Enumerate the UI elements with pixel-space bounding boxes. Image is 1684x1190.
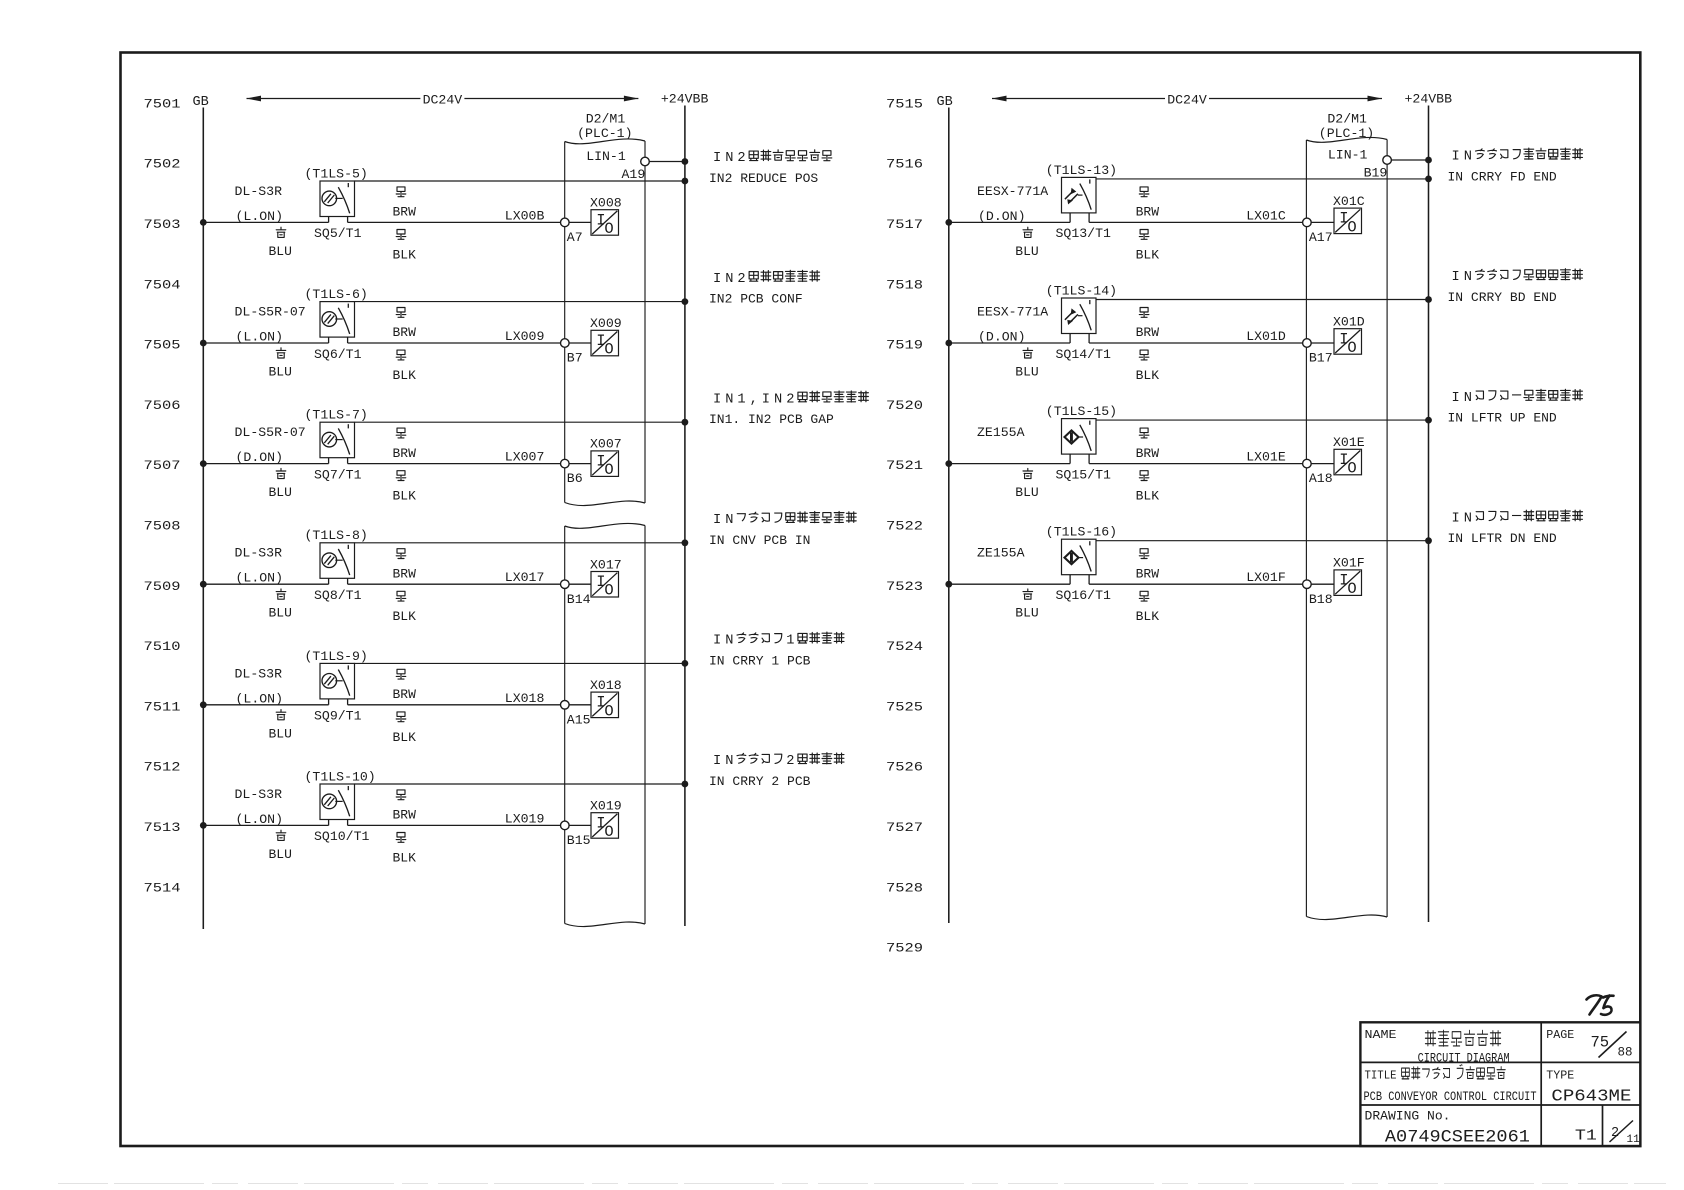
svg-text:7511: 7511 xyxy=(144,699,181,714)
wire: terminal to PLC input X018 xyxy=(569,704,591,706)
svg-text:X007: X007 xyxy=(590,437,622,452)
title block: PAGE cell 75/88 xyxy=(1546,1028,1632,1059)
svg-text:O: O xyxy=(1347,460,1356,478)
svg-text:BLU: BLU xyxy=(1015,365,1038,380)
wire: sensor pin stub BLU xyxy=(328,458,330,464)
wire: sensor pin stub BLK xyxy=(347,699,349,705)
terminal LX01E pin A18 xyxy=(1303,459,1312,468)
svg-text:O: O xyxy=(604,823,613,841)
svg-text:2: 2 xyxy=(786,392,794,407)
svg-text:DL-S3R: DL-S3R xyxy=(235,184,283,199)
svg-text:N: N xyxy=(725,513,733,528)
svg-text:DL-S3R: DL-S3R xyxy=(235,787,283,802)
svg-text:SQ10/T1: SQ10/T1 xyxy=(314,829,369,844)
svg-text:LIN-1: LIN-1 xyxy=(586,149,626,164)
svg-text:(D.ON): (D.ON) xyxy=(978,330,1025,345)
svg-text:BLK: BLK xyxy=(393,609,417,624)
junction on +24VBB bus (SQ16/T1 BRW) xyxy=(1425,537,1432,544)
svg-text:2: 2 xyxy=(786,754,794,769)
wire: sensor SQ14/T1 brown lead to +24VBB bus xyxy=(1096,299,1429,301)
PLC input point X01D xyxy=(1333,315,1365,357)
svg-text:BLU: BLU xyxy=(269,244,292,259)
svg-text:A7: A7 xyxy=(567,230,583,245)
svg-text:B17: B17 xyxy=(1309,351,1333,366)
svg-text:B14: B14 xyxy=(567,592,591,607)
svg-text:7513: 7513 xyxy=(144,820,181,835)
junction on +24VBB bus (SQ15/T1 BRW) xyxy=(1425,417,1432,424)
PLC input point X019 xyxy=(590,799,622,841)
svg-text:DRAWING No.: DRAWING No. xyxy=(1365,1110,1451,1124)
svg-text:N: N xyxy=(1464,150,1472,165)
DC24V supply span arrow xyxy=(992,93,1382,108)
PLC input point X01E xyxy=(1333,435,1365,477)
svg-text:(D.ON): (D.ON) xyxy=(236,450,283,465)
svg-text:I: I xyxy=(713,513,721,528)
junction on GB bus (row 7511) xyxy=(200,701,207,708)
svg-text:(T1LS-14): (T1LS-14) xyxy=(1046,283,1117,298)
net label: IN CNV PCB IN xyxy=(709,512,856,548)
label BRW (brown lead) xyxy=(393,428,417,461)
svg-text:PAGE: PAGE xyxy=(1546,1028,1574,1042)
svg-text:I: I xyxy=(1451,391,1459,406)
svg-text:LX019: LX019 xyxy=(505,811,545,826)
svg-text:BLK: BLK xyxy=(393,489,417,504)
label BLU (blue lead) xyxy=(269,710,292,742)
net label: IN2 REDUCE POS xyxy=(709,150,832,186)
svg-text:7510: 7510 xyxy=(144,639,181,654)
svg-text:A18: A18 xyxy=(1309,471,1333,486)
svg-text:7505: 7505 xyxy=(144,338,181,353)
wire: sensor SQ7/T1 black lead to PLC terminal B6 xyxy=(348,463,561,465)
svg-text:O: O xyxy=(604,461,613,479)
svg-text:BRW: BRW xyxy=(393,205,417,220)
svg-text:LX017: LX017 xyxy=(505,570,545,585)
junction on +24VBB bus (LIN-1) xyxy=(682,158,689,165)
wire: sensor SQ6/T1 black lead to PLC terminal B7 xyxy=(348,342,561,344)
wire: terminal to PLC input X008 xyxy=(569,221,591,223)
wire: GB bus to sensor SQ9/T1 blue lead xyxy=(203,704,328,706)
net label: IN LFTR DN END xyxy=(1448,510,1583,546)
svg-text:I: I xyxy=(713,754,721,769)
svg-text:N: N xyxy=(725,392,733,407)
svg-text:(L.ON): (L.ON) xyxy=(236,691,283,706)
svg-text:N: N xyxy=(725,634,733,649)
label BLU (blue lead) xyxy=(269,830,292,862)
photoelectric sensor SQ13/T1 (T1LS-13) type EESX-771A xyxy=(1062,177,1097,213)
net label: IN LFTR UP END xyxy=(1448,389,1583,425)
svg-text:I: I xyxy=(713,392,721,407)
svg-text:7526: 7526 xyxy=(886,760,923,775)
svg-text:X019: X019 xyxy=(590,799,622,814)
svg-text:D2/M1: D2/M1 xyxy=(586,112,626,127)
svg-text:IN CRRY BD END: IN CRRY BD END xyxy=(1448,290,1557,305)
wire: +24VBB bus xyxy=(684,106,686,927)
svg-text:BRW: BRW xyxy=(393,687,417,702)
svg-text:SQ15/T1: SQ15/T1 xyxy=(1056,467,1111,482)
wire: sensor pin stub BLK xyxy=(1088,334,1090,344)
svg-text:LX01D: LX01D xyxy=(1246,329,1286,344)
svg-text:SQ14/T1: SQ14/T1 xyxy=(1056,347,1111,362)
wire: sensor SQ14/T1 black lead to PLC terminal B17 xyxy=(1089,342,1303,344)
net label: IN CRRY 2 PCB xyxy=(709,753,844,789)
wire: GB bus to sensor SQ14/T1 blue lead xyxy=(949,342,1070,344)
svg-text:I: I xyxy=(713,151,721,166)
wire: sensor SQ10/T1 brown lead to +24VBB bus xyxy=(355,783,685,785)
svg-text:I: I xyxy=(762,392,770,407)
wire: sensor pin stub BLU xyxy=(328,217,330,223)
svg-text:BLK: BLK xyxy=(1136,247,1160,262)
terminal LX01D pin B17 xyxy=(1303,339,1312,348)
svg-text:LX01E: LX01E xyxy=(1246,450,1286,465)
svg-text:7504: 7504 xyxy=(144,277,181,292)
svg-text:BLK: BLK xyxy=(393,247,417,262)
PLC input point X009 xyxy=(590,316,622,358)
label BLK (black lead) xyxy=(1136,591,1160,624)
wire: sensor SQ8/T1 black lead to PLC terminal B14 xyxy=(348,583,561,585)
svg-text:O: O xyxy=(604,582,613,600)
photoelectric sensor SQ10/T1 (T1LS-10) type DL-S3R xyxy=(320,784,355,820)
wire: terminal to PLC input X01F xyxy=(1311,583,1334,585)
junction on GB bus (row 7507) xyxy=(200,460,207,467)
junction on +24VBB bus (SQ13/T1 BRW) xyxy=(1425,176,1432,183)
wire: GB bus to sensor SQ5/T1 blue lead xyxy=(203,221,328,223)
PLC input point X008 xyxy=(590,196,622,238)
svg-text:DC24V: DC24V xyxy=(1167,93,1207,108)
junction on +24VBB bus (LIN-1) xyxy=(1425,157,1432,164)
terminal LIN-1 pin B19 xyxy=(1328,148,1429,181)
junction on GB bus (row 7505) xyxy=(200,340,207,347)
handwritten page number 75 xyxy=(1587,995,1614,1015)
wire: sensor SQ7/T1 brown lead to +24VBB bus xyxy=(355,421,685,423)
svg-text:A0749CSEE2061: A0749CSEE2061 xyxy=(1385,1127,1530,1147)
wire: sensor pin stub BLK xyxy=(347,820,349,826)
svg-text:N: N xyxy=(725,754,733,769)
junction on GB bus (row 7521) xyxy=(945,460,952,467)
svg-text:IN CRRY FD END: IN CRRY FD END xyxy=(1448,169,1557,184)
wire: GB bus xyxy=(948,108,950,924)
svg-text:N: N xyxy=(725,151,733,166)
svg-text:X01C: X01C xyxy=(1333,194,1365,209)
DC24V supply span arrow xyxy=(247,93,639,108)
svg-text:TYPE: TYPE xyxy=(1546,1068,1574,1082)
net label: IN CRRY BD END xyxy=(1448,269,1583,305)
junction on +24VBB bus (SQ5/T1 BRW) xyxy=(682,178,689,185)
wire: GB bus to sensor SQ16/T1 blue lead xyxy=(949,583,1070,585)
wire: GB bus to sensor SQ13/T1 blue lead xyxy=(949,221,1070,223)
junction on +24VBB bus (SQ6/T1 BRW) xyxy=(682,298,689,305)
svg-text:BLU: BLU xyxy=(269,726,292,741)
svg-text:(D.ON): (D.ON) xyxy=(978,209,1025,224)
photoelectric sensor SQ9/T1 (T1LS-9) type DL-S3R xyxy=(320,663,355,699)
terminal LX018 pin A15 xyxy=(561,701,570,710)
svg-text:7506: 7506 xyxy=(144,398,181,413)
svg-text:1: 1 xyxy=(786,634,794,649)
svg-text:BLK: BLK xyxy=(1136,489,1160,504)
svg-text:ZE155A: ZE155A xyxy=(977,546,1025,561)
terminal LX009 pin B7 xyxy=(561,339,570,348)
wire: sensor SQ6/T1 brown lead to +24VBB bus xyxy=(355,301,685,303)
svg-text:7512: 7512 xyxy=(144,760,181,775)
svg-text:DL-S3R: DL-S3R xyxy=(235,546,283,561)
wire: sensor pin stub BLK xyxy=(347,217,349,223)
svg-text:I: I xyxy=(1451,511,1459,526)
label BLU (blue lead) xyxy=(1015,589,1038,621)
label BLK (black lead) xyxy=(1136,350,1160,383)
svg-text:CP643ME: CP643ME xyxy=(1551,1088,1631,1107)
wire: sensor SQ13/T1 brown lead to +24VBB bus xyxy=(1096,178,1429,180)
svg-text:ZE155A: ZE155A xyxy=(977,425,1025,440)
svg-text:(L.ON): (L.ON) xyxy=(236,571,283,586)
svg-text:IN LFTR UP END: IN LFTR UP END xyxy=(1448,411,1557,426)
svg-text:A19: A19 xyxy=(622,167,646,182)
wire: sensor SQ16/T1 black lead to PLC terminal B18 xyxy=(1089,583,1303,585)
label BRW (brown lead) xyxy=(393,669,417,702)
svg-text:PCB CONVEYOR CONTROL CIRCUIT: PCB CONVEYOR CONTROL CIRCUIT xyxy=(1364,1089,1537,1104)
bottom page edge shadow xyxy=(58,1183,1666,1185)
label BLU (blue lead) xyxy=(269,589,292,621)
svg-text:B19: B19 xyxy=(1364,166,1388,181)
junction on GB bus (row 7509) xyxy=(200,581,207,588)
wire: sensor SQ5/T1 brown lead to +24VBB bus xyxy=(355,180,685,182)
svg-text:11: 11 xyxy=(1627,1134,1641,1146)
PLC input point X007 xyxy=(590,437,622,479)
junction on GB bus (row 7517) xyxy=(945,219,952,226)
svg-text:LX00B: LX00B xyxy=(505,208,545,223)
junction on GB bus (row 7519) xyxy=(945,340,952,347)
wire: GB bus to sensor SQ6/T1 blue lead xyxy=(203,342,328,344)
PLC input point X01F xyxy=(1333,556,1365,598)
svg-text:SQ8/T1: SQ8/T1 xyxy=(314,588,362,603)
label BLK (black lead) xyxy=(393,350,417,383)
svg-text:(T1LS-13): (T1LS-13) xyxy=(1046,163,1117,178)
svg-text:7503: 7503 xyxy=(144,217,181,232)
svg-text:N: N xyxy=(1464,511,1472,526)
svg-text:BLK: BLK xyxy=(393,850,417,865)
wire: GB bus to sensor SQ15/T1 blue lead xyxy=(949,463,1070,465)
svg-text:2: 2 xyxy=(737,151,745,166)
svg-text:(T1LS-10): (T1LS-10) xyxy=(305,769,376,784)
svg-text:DL-S5R-07: DL-S5R-07 xyxy=(235,425,306,440)
photoelectric sensor SQ14/T1 (T1LS-14) type EESX-771A xyxy=(1062,298,1097,334)
label BLK (black lead) xyxy=(393,833,417,866)
svg-text:I: I xyxy=(713,272,721,287)
wire: GB bus to sensor SQ10/T1 blue lead xyxy=(203,824,328,826)
wire: terminal to PLC input X01C xyxy=(1311,221,1334,223)
junction on +24VBB bus (SQ7/T1 BRW) xyxy=(682,419,689,426)
svg-text:7522: 7522 xyxy=(886,519,923,534)
svg-text:B6: B6 xyxy=(567,471,583,486)
junction on GB bus (row 7503) xyxy=(200,219,207,226)
wire: GB bus to sensor SQ7/T1 blue lead xyxy=(203,463,328,465)
svg-text:TITLE: TITLE xyxy=(1365,1068,1397,1082)
svg-text:N: N xyxy=(725,272,733,287)
svg-text:7523: 7523 xyxy=(886,579,923,594)
svg-text:7517: 7517 xyxy=(886,217,923,232)
wire: sensor SQ15/T1 brown lead to +24VBB bus xyxy=(1096,419,1429,421)
svg-text:(T1LS-5): (T1LS-5) xyxy=(305,166,368,181)
wire: sensor SQ9/T1 black lead to PLC terminal A15 xyxy=(348,704,561,706)
svg-text:BRW: BRW xyxy=(1136,205,1160,220)
svg-text:7508: 7508 xyxy=(144,519,181,534)
svg-text:7516: 7516 xyxy=(886,157,923,172)
svg-text:(T1LS-7): (T1LS-7) xyxy=(305,408,368,423)
svg-text:BLU: BLU xyxy=(1015,485,1038,500)
junction on +24VBB bus (SQ10/T1 BRW) xyxy=(682,781,689,788)
svg-text:LX01C: LX01C xyxy=(1246,208,1286,223)
label BLK (black lead) xyxy=(393,471,417,504)
svg-text:7528: 7528 xyxy=(886,880,923,895)
svg-text:BLU: BLU xyxy=(269,606,292,621)
svg-text:,: , xyxy=(750,392,758,407)
svg-text:O: O xyxy=(1347,218,1356,236)
wire: sensor SQ16/T1 brown lead to +24VBB bus xyxy=(1096,540,1429,542)
wire: sensor pin stub BLU xyxy=(328,699,330,705)
svg-text:BRW: BRW xyxy=(1136,325,1160,340)
svg-text:BLK: BLK xyxy=(393,368,417,383)
wire: sensor pin stub BLK xyxy=(1088,454,1090,464)
junction on GB bus (row 7513) xyxy=(200,822,207,829)
svg-text:X009: X009 xyxy=(590,316,622,331)
svg-text:BRW: BRW xyxy=(393,566,417,581)
terminal LX01C pin A17 xyxy=(1303,218,1312,227)
label BRW (brown lead) xyxy=(1136,308,1160,341)
svg-text:7529: 7529 xyxy=(886,941,923,956)
svg-text:(T1LS-6): (T1LS-6) xyxy=(305,287,368,302)
svg-text:O: O xyxy=(1347,580,1356,598)
wire: terminal to PLC input X019 xyxy=(569,824,591,826)
label BRW (brown lead) xyxy=(1136,187,1160,220)
label BRW (brown lead) xyxy=(1136,428,1160,461)
svg-text:O: O xyxy=(604,220,613,238)
svg-text:GB: GB xyxy=(937,95,953,110)
svg-text:N: N xyxy=(774,392,782,407)
terminal LX00B pin A7 xyxy=(561,218,570,227)
wire: sensor pin stub BLU xyxy=(1069,213,1071,223)
label BLK (black lead) xyxy=(393,591,417,624)
svg-text:NAME: NAME xyxy=(1365,1028,1397,1042)
label BLU (blue lead) xyxy=(269,468,292,500)
wire: GB bus xyxy=(202,108,204,930)
svg-text:X01F: X01F xyxy=(1333,556,1365,571)
svg-text:BLK: BLK xyxy=(1136,609,1160,624)
svg-text:LX009: LX009 xyxy=(505,329,545,344)
svg-text:I: I xyxy=(1451,270,1459,285)
wire: sensor SQ15/T1 black lead to PLC terminal A18 xyxy=(1089,463,1303,465)
svg-text:SQ7/T1: SQ7/T1 xyxy=(314,467,362,482)
svg-text:IN LFTR DN END: IN LFTR DN END xyxy=(1448,531,1557,546)
wire: terminal to PLC input X009 xyxy=(569,342,591,344)
net label: IN CRRY FD END xyxy=(1448,148,1583,184)
proximity sensor SQ15/T1 (T1LS-15) type ZE155A xyxy=(1062,419,1097,455)
title block table xyxy=(1360,1022,1640,1146)
svg-text:D2/M1: D2/M1 xyxy=(1327,112,1367,127)
wire: sensor SQ9/T1 brown lead to +24VBB bus xyxy=(355,662,685,664)
svg-text:7527: 7527 xyxy=(886,820,923,835)
label BLU (blue lead) xyxy=(269,227,292,259)
svg-text:7519: 7519 xyxy=(886,338,923,353)
svg-text:DL-S5R-07: DL-S5R-07 xyxy=(235,305,306,320)
svg-text:LX01F: LX01F xyxy=(1246,570,1286,585)
terminal LX007 pin B6 xyxy=(561,459,570,468)
svg-text:DL-S3R: DL-S3R xyxy=(235,666,283,681)
svg-text:(L.ON): (L.ON) xyxy=(236,209,283,224)
svg-text:DC24V: DC24V xyxy=(423,93,463,108)
svg-text:(PLC-1): (PLC-1) xyxy=(1319,126,1374,141)
wire: sensor pin stub BLK xyxy=(347,458,349,464)
svg-text:7507: 7507 xyxy=(144,458,181,473)
svg-text:BLU: BLU xyxy=(1015,244,1038,259)
label BLK (black lead) xyxy=(1136,471,1160,504)
label BRW (brown lead) xyxy=(393,308,417,341)
svg-text:(T1LS-9): (T1LS-9) xyxy=(305,649,368,664)
svg-text:LIN-1: LIN-1 xyxy=(1328,148,1368,163)
svg-text:BLU: BLU xyxy=(269,847,292,862)
wire: terminal to PLC input X01D xyxy=(1311,342,1334,344)
svg-text:X018: X018 xyxy=(590,678,622,693)
svg-text:BRW: BRW xyxy=(1136,566,1160,581)
svg-text:N: N xyxy=(1464,391,1472,406)
svg-text:X008: X008 xyxy=(590,196,622,211)
svg-text:88: 88 xyxy=(1618,1046,1633,1060)
svg-text:IN CRRY 2 PCB: IN CRRY 2 PCB xyxy=(709,774,811,789)
svg-text:BLK: BLK xyxy=(393,730,417,745)
label BRW (brown lead) xyxy=(393,549,417,582)
svg-text:O: O xyxy=(604,702,613,720)
svg-text:IN2 PCB CONF: IN2 PCB CONF xyxy=(709,292,803,307)
svg-text:IN2 REDUCE POS: IN2 REDUCE POS xyxy=(709,171,818,186)
svg-text:EESX-771A: EESX-771A xyxy=(977,305,1048,320)
junction on +24VBB bus (SQ8/T1 BRW) xyxy=(682,539,689,546)
svg-text:7524: 7524 xyxy=(886,639,923,654)
svg-text:BRW: BRW xyxy=(1136,446,1160,461)
wire: sensor pin stub BLU xyxy=(328,337,330,343)
svg-text:(T1LS-16): (T1LS-16) xyxy=(1046,525,1117,540)
svg-text:SQ13/T1: SQ13/T1 xyxy=(1056,226,1111,241)
svg-text:X01D: X01D xyxy=(1333,315,1365,330)
terminal LX019 pin B15 xyxy=(561,821,570,830)
PLC connector D2/M1 (PLC-1) xyxy=(565,112,645,927)
terminal LX01F pin B18 xyxy=(1303,580,1312,589)
svg-text:LX018: LX018 xyxy=(505,691,545,706)
svg-text:7521: 7521 xyxy=(886,458,923,473)
svg-text:IN CNV PCB IN: IN CNV PCB IN xyxy=(709,533,810,548)
junction on GB bus (row 7523) xyxy=(945,581,952,588)
svg-text:7509: 7509 xyxy=(144,579,181,594)
title block: TYPE cell CP643ME xyxy=(1546,1068,1631,1106)
svg-text:BLU: BLU xyxy=(269,485,292,500)
wire: sensor SQ13/T1 black lead to PLC terminal A17 xyxy=(1089,221,1303,223)
svg-text:GB: GB xyxy=(193,95,209,110)
wire: terminal to PLC input X007 xyxy=(569,463,591,465)
wire: sensor pin stub BLU xyxy=(1069,454,1071,464)
svg-text:B7: B7 xyxy=(567,351,583,366)
wire: sensor pin stub BLK xyxy=(347,578,349,584)
label BLU (blue lead) xyxy=(1015,468,1038,500)
svg-text:7502: 7502 xyxy=(144,157,181,172)
svg-text:EESX-771A: EESX-771A xyxy=(977,184,1048,199)
svg-text:BLU: BLU xyxy=(1015,606,1038,621)
row number labels 7515-7529 xyxy=(886,96,923,955)
wire: +24VBB bus xyxy=(1428,106,1430,923)
net label: IN1. IN2 PCB GAP xyxy=(709,391,868,427)
proximity sensor SQ16/T1 (T1LS-16) type ZE155A xyxy=(1062,539,1097,575)
svg-text:I: I xyxy=(713,634,721,649)
row number labels 7501-7514 xyxy=(144,96,181,895)
wire: sensor pin stub BLK xyxy=(1088,213,1090,223)
label BRW (brown lead) xyxy=(393,187,417,220)
photoelectric sensor SQ5/T1 (T1LS-5) type DL-S3R xyxy=(320,181,355,217)
svg-text:7525: 7525 xyxy=(886,699,923,714)
